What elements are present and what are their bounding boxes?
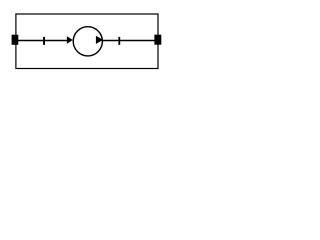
terminal square right xyxy=(154,35,161,45)
tick mark left xyxy=(43,37,45,45)
source circle xyxy=(73,27,102,56)
arrowhead left xyxy=(67,36,73,44)
tick mark right xyxy=(118,37,120,45)
wire right segment xyxy=(103,40,159,42)
terminal square left xyxy=(12,35,19,45)
wire loop rectangle xyxy=(16,14,158,69)
wire left segment xyxy=(16,40,68,42)
arrowhead right xyxy=(96,36,103,44)
